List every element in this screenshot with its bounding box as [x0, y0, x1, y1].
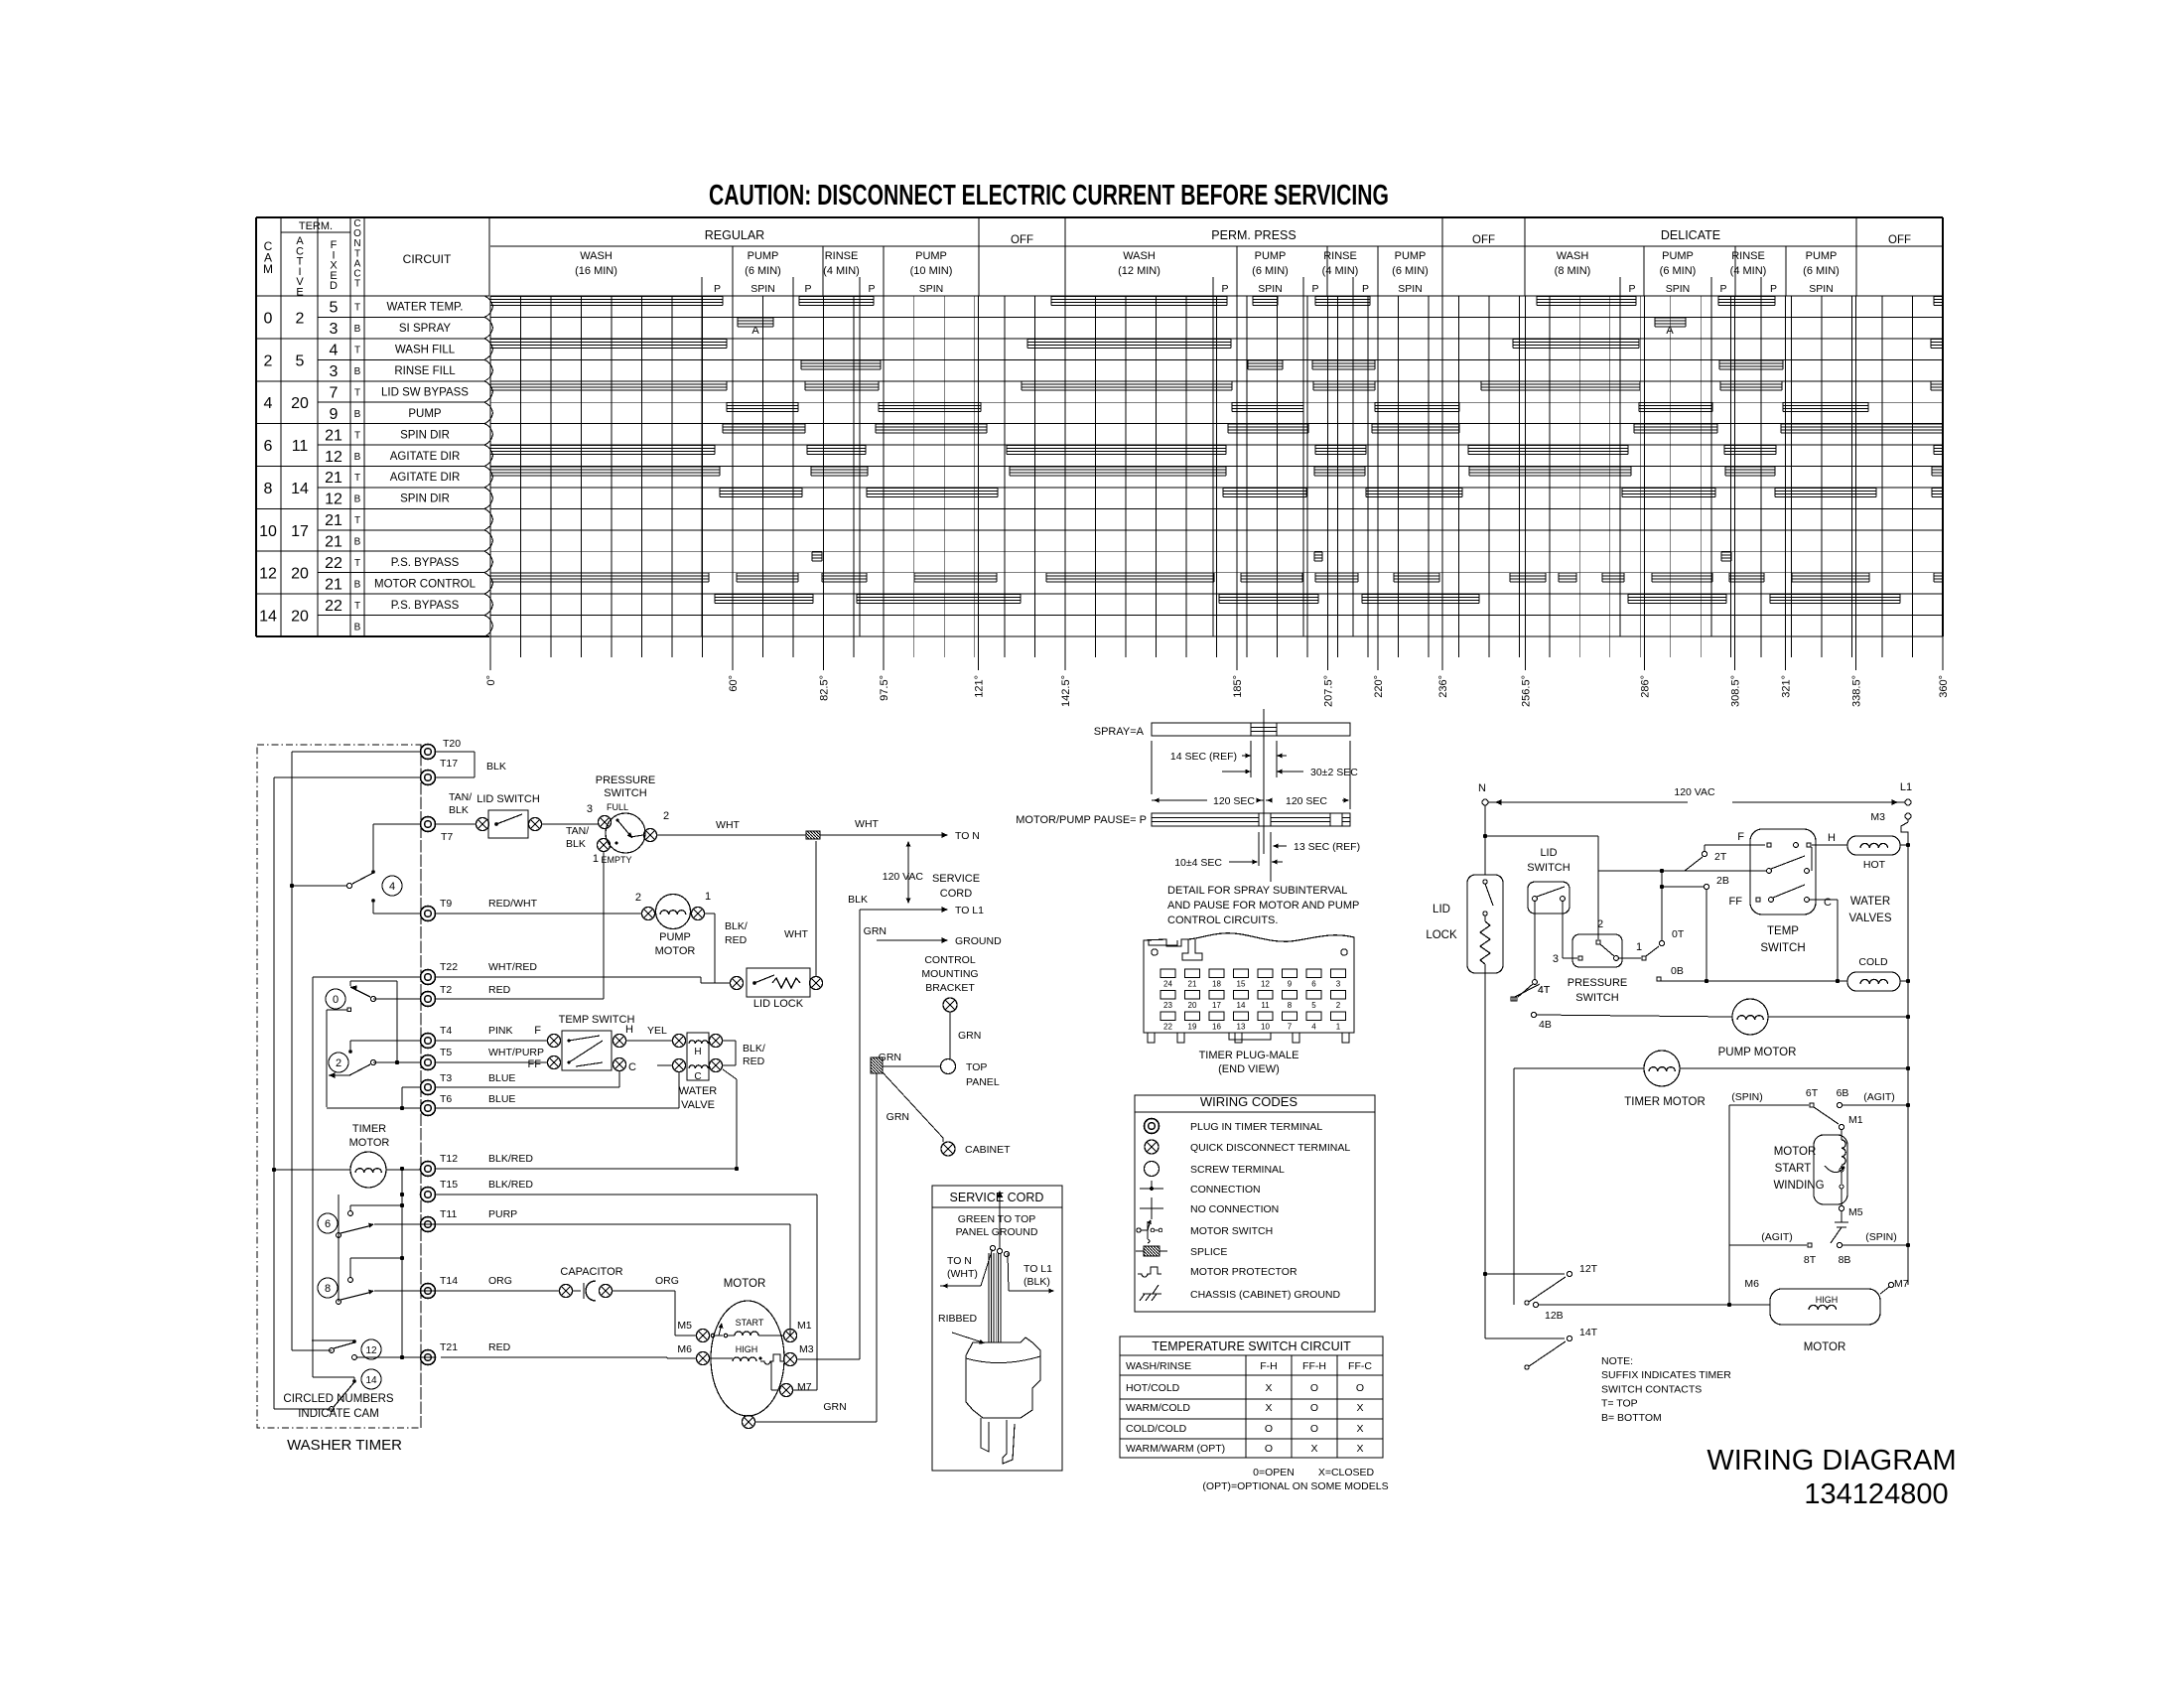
svg-text:TOP: TOP — [966, 1061, 987, 1073]
svg-text:RED: RED — [725, 934, 748, 946]
svg-text:WHT/RED: WHT/RED — [488, 961, 537, 973]
svg-text:8: 8 — [1288, 1001, 1293, 1010]
svg-text:X: X — [1356, 1443, 1363, 1455]
washer timer label — [287, 1437, 402, 1454]
svg-text:AND PAUSE FOR MOTOR AND PUMP: AND PAUSE FOR MOTOR AND PUMP — [1167, 900, 1359, 912]
svg-text:321°: 321° — [1781, 675, 1793, 698]
svg-text:21: 21 — [1188, 980, 1197, 989]
svg-text:B: B — [354, 324, 361, 335]
svg-text:(END VIEW): (END VIEW) — [1218, 1063, 1280, 1075]
cam 8 switch — [318, 1195, 435, 1304]
timing bar row 4 RINSE FILL — [801, 360, 1783, 369]
valve to T12 riser — [723, 1069, 737, 1169]
bus 405 vertical — [400, 1167, 404, 1359]
svg-text:SERVICE CORD: SERVICE CORD — [950, 1191, 1044, 1204]
svg-text:LID SWITCH: LID SWITCH — [477, 793, 540, 805]
svg-text:VALVE: VALVE — [681, 1099, 715, 1111]
svg-text:13 SEC (REF): 13 SEC (REF) — [1294, 841, 1360, 853]
timing bar row 14 MOTOR CONTROL — [490, 573, 1943, 582]
svg-text:M7: M7 — [797, 1381, 812, 1393]
svg-text:82.5°: 82.5° — [818, 675, 830, 701]
svg-text:GRN: GRN — [879, 1052, 901, 1063]
svg-text:ORG: ORG — [488, 1275, 512, 1287]
svg-text:GROUND: GROUND — [955, 935, 1002, 947]
svg-text:O: O — [1310, 1423, 1318, 1435]
svg-text:HOT/COLD: HOT/COLD — [1126, 1382, 1180, 1394]
lid switch (timer) — [435, 793, 599, 850]
svg-text:10: 10 — [259, 523, 277, 540]
svg-text:2B: 2B — [1716, 875, 1729, 887]
water valve (timer) — [657, 1033, 765, 1111]
svg-text:B: B — [354, 579, 361, 590]
svg-text:T: T — [354, 473, 360, 484]
washer timer dashed enclosure — [257, 745, 421, 1428]
circled numbers note — [283, 1393, 394, 1420]
timing bar row 7 SPIN DIR — [723, 424, 1943, 433]
wiring code: splice — [1136, 1246, 1227, 1258]
svg-text:SPIN: SPIN — [1258, 283, 1283, 295]
svg-text:4: 4 — [389, 881, 395, 893]
svg-text:NOTE:: NOTE: — [1601, 1355, 1633, 1367]
svg-text:T= TOP: T= TOP — [1601, 1398, 1638, 1410]
svg-text:B: B — [354, 494, 361, 505]
svg-text:(6 MIN): (6 MIN) — [745, 265, 781, 277]
svg-text:WATER: WATER — [1850, 896, 1890, 908]
svg-text:PRESSURE: PRESSURE — [596, 774, 656, 786]
svg-text:SPLICE: SPLICE — [1190, 1246, 1227, 1258]
T15 wire to M7 riser — [435, 1195, 817, 1390]
svg-text:WIRING CODES: WIRING CODES — [1200, 1094, 1298, 1109]
svg-text:WIRING DIAGRAM: WIRING DIAGRAM — [1706, 1445, 1956, 1477]
water valves label — [1848, 896, 1891, 924]
svg-text:BLK/: BLK/ — [725, 920, 748, 932]
svg-text:REGULAR: REGULAR — [705, 228, 764, 242]
wiring code: motor switch — [1137, 1219, 1273, 1243]
svg-text:12T: 12T — [1579, 1263, 1598, 1275]
svg-text:8: 8 — [264, 481, 273, 497]
svg-text:BLUE: BLUE — [488, 1072, 515, 1084]
timer motor (timer) — [274, 1123, 420, 1188]
svg-text:WASH: WASH — [1557, 250, 1589, 262]
svg-text:20: 20 — [291, 566, 309, 583]
svg-text:60°: 60° — [728, 675, 740, 692]
svg-text:RED/WHT: RED/WHT — [488, 898, 538, 910]
svg-text:TO N: TO N — [955, 830, 980, 842]
svg-text:HIGH: HIGH — [1816, 1295, 1839, 1305]
cam 14 switch — [313, 1340, 381, 1411]
svg-text:T6: T6 — [440, 1093, 452, 1105]
T22 bus down to cam12 — [312, 1224, 313, 1340]
svg-text:0T: 0T — [1672, 928, 1685, 940]
svg-text:4: 4 — [264, 395, 273, 412]
svg-text:MOTOR SWITCH: MOTOR SWITCH — [1190, 1225, 1273, 1237]
svg-text:TEMPERATURE SWITCH CIRCUIT: TEMPERATURE SWITCH CIRCUIT — [1152, 1339, 1351, 1353]
svg-text:12: 12 — [325, 492, 342, 508]
temp switch (right schematic) — [1729, 829, 1836, 954]
svg-text:RINSE: RINSE — [1323, 250, 1357, 262]
svg-text:NO CONNECTION: NO CONNECTION — [1190, 1203, 1279, 1215]
svg-text:BLK/RED: BLK/RED — [488, 1153, 533, 1165]
wiring code: chassis ground — [1140, 1285, 1341, 1301]
svg-text:MOTOR: MOTOR — [1804, 1341, 1846, 1353]
spin/agit 6T 6B row — [1729, 1087, 1908, 1305]
svg-text:360°: 360° — [1938, 675, 1950, 698]
svg-text:M6: M6 — [677, 1343, 692, 1355]
svg-text:10: 10 — [1261, 1023, 1270, 1032]
svg-text:SPRAY=A: SPRAY=A — [1094, 726, 1145, 738]
svg-text:P.S. BYPASS: P.S. BYPASS — [391, 557, 460, 569]
svg-text:P: P — [714, 283, 721, 295]
svg-text:T: T — [354, 430, 360, 441]
svg-text:RINSE FILL: RINSE FILL — [394, 365, 456, 377]
svg-text:FF-C: FF-C — [1348, 1360, 1372, 1372]
svg-text:7: 7 — [330, 385, 339, 402]
svg-text:4B: 4B — [1539, 1019, 1552, 1031]
circuit name flags — [364, 296, 493, 636]
svg-text:CONTROL CIRCUITS.: CONTROL CIRCUITS. — [1167, 914, 1278, 926]
svg-text:SPIN: SPIN — [1666, 283, 1691, 295]
svg-text:TEMP SWITCH: TEMP SWITCH — [559, 1014, 635, 1026]
node N — [1478, 782, 1488, 805]
svg-text:236°: 236° — [1437, 675, 1449, 698]
cam chart outer frame — [256, 217, 1943, 636]
agit/spin 8T 8B row — [1729, 1231, 1908, 1266]
motor start winding — [1773, 1114, 1862, 1243]
svg-text:WASH/RINSE: WASH/RINSE — [1126, 1360, 1191, 1372]
svg-text:AGITATE DIR: AGITATE DIR — [390, 451, 461, 463]
cam 4 switch — [292, 824, 421, 914]
pressure switch (timer) — [587, 774, 669, 865]
svg-text:120 VAC: 120 VAC — [1674, 786, 1715, 798]
svg-text:QUICK DISCONNECT TERMINAL: QUICK DISCONNECT TERMINAL — [1190, 1142, 1350, 1154]
timing bar row 3 WASH FILL — [490, 339, 1943, 348]
svg-text:2: 2 — [336, 1057, 341, 1069]
svg-text:LID LOCK: LID LOCK — [753, 998, 804, 1010]
svg-text:21: 21 — [325, 576, 342, 593]
svg-text:(10 MIN): (10 MIN) — [910, 265, 953, 277]
svg-text:TIMER MOTOR: TIMER MOTOR — [1624, 1096, 1706, 1108]
spray=A bar — [1094, 709, 1350, 854]
svg-text:RED: RED — [743, 1055, 765, 1067]
svg-text:1: 1 — [705, 891, 711, 903]
cam chart row cells — [256, 300, 364, 636]
svg-text:0=OPEN: 0=OPEN — [1253, 1467, 1295, 1478]
svg-text:FF: FF — [528, 1058, 542, 1070]
wiring code: no connection — [1140, 1197, 1279, 1219]
svg-text:13: 13 — [1237, 1023, 1246, 1032]
svg-text:4T: 4T — [1538, 984, 1551, 996]
svg-text:6B: 6B — [1837, 1087, 1849, 1099]
chart grid horizontals — [490, 296, 1943, 636]
0T 0B contacts — [1657, 871, 1847, 983]
svg-text:COLD: COLD — [1858, 956, 1888, 968]
svg-text:T7: T7 — [441, 831, 453, 843]
temp switch (timer) — [435, 1014, 672, 1087]
svg-text:EMPTY: EMPTY — [601, 855, 631, 865]
svg-text:P: P — [804, 283, 811, 295]
ground distribution — [871, 954, 1011, 1156]
timer plug-male outline — [1144, 933, 1354, 1075]
svg-text:SPIN: SPIN — [1809, 283, 1834, 295]
svg-text:BRACKET: BRACKET — [925, 982, 975, 994]
pump motor (timer) — [435, 891, 748, 983]
svg-text:CORD: CORD — [940, 888, 972, 900]
svg-text:ORG: ORG — [655, 1275, 679, 1287]
timing bar row 13 P.S. BYPASS — [812, 552, 1731, 561]
svg-text:12: 12 — [259, 566, 277, 583]
svg-text:WHT: WHT — [716, 819, 740, 831]
svg-text:16: 16 — [1212, 1023, 1221, 1032]
svg-text:4: 4 — [1311, 1023, 1316, 1032]
service cord plug drawing — [938, 1191, 1054, 1464]
svg-text:(6 MIN): (6 MIN) — [1803, 265, 1840, 277]
svg-text:2: 2 — [635, 892, 641, 904]
svg-text:PURP: PURP — [488, 1208, 517, 1220]
svg-text:GRN: GRN — [887, 1111, 909, 1123]
svg-text:(12 MIN): (12 MIN) — [1118, 265, 1160, 277]
svg-text:TAN/: TAN/ — [449, 791, 472, 803]
cam 12 switch — [312, 1339, 402, 1359]
svg-text:GRN: GRN — [864, 925, 887, 937]
svg-text:97.5°: 97.5° — [879, 675, 890, 701]
svg-text:PUMP: PUMP — [1806, 250, 1838, 262]
degree labels — [485, 675, 1950, 707]
svg-text:(8 MIN): (8 MIN) — [1555, 265, 1591, 277]
svg-text:HIGH: HIGH — [736, 1344, 758, 1354]
svg-text:SPIN DIR: SPIN DIR — [400, 493, 450, 505]
lid lock (timer) — [435, 841, 823, 1010]
svg-text:(6 MIN): (6 MIN) — [1252, 265, 1289, 277]
svg-text:T: T — [354, 558, 360, 569]
svg-text:C: C — [1824, 897, 1832, 909]
svg-text:B: B — [354, 452, 361, 463]
svg-text:WHT: WHT — [784, 928, 808, 940]
svg-text:PRESSURE: PRESSURE — [1568, 977, 1628, 989]
svg-text:X: X — [1356, 1402, 1363, 1414]
svg-text:B: B — [354, 366, 361, 377]
svg-text:12B: 12B — [1545, 1310, 1564, 1322]
svg-text:RINSE: RINSE — [825, 250, 859, 262]
svg-text:L1: L1 — [1900, 781, 1912, 793]
svg-text:8T: 8T — [1804, 1254, 1817, 1266]
svg-text:T: T — [354, 388, 360, 399]
svg-text:21: 21 — [325, 470, 342, 487]
wiring code: screw terminal — [1145, 1162, 1286, 1177]
svg-text:P: P — [1311, 283, 1318, 295]
svg-text:338.5°: 338.5° — [1851, 675, 1863, 707]
12B wire to HIGH winding — [1533, 1302, 1770, 1322]
svg-text:M7: M7 — [1894, 1278, 1909, 1290]
svg-text:CONTROL: CONTROL — [924, 954, 975, 966]
cam 6 switch — [318, 1205, 435, 1237]
svg-text:(AGIT): (AGIT) — [1863, 1091, 1895, 1103]
svg-text:WATER TEMP.: WATER TEMP. — [387, 302, 464, 314]
service cord box — [932, 1186, 1062, 1471]
grn wire to ground — [864, 925, 1002, 947]
svg-text:M3: M3 — [799, 1343, 814, 1355]
svg-text:T: T — [354, 279, 360, 290]
svg-text:P: P — [1719, 283, 1726, 295]
T14 ORG wire (already drawn), T11 PURP wire — [435, 1224, 790, 1336]
svg-text:T12: T12 — [440, 1153, 458, 1165]
svg-text:WASH: WASH — [1123, 250, 1156, 262]
svg-text:3: 3 — [1336, 980, 1341, 989]
svg-text:BLUE: BLUE — [488, 1093, 515, 1105]
svg-text:142.5°: 142.5° — [1060, 675, 1072, 707]
svg-text:12: 12 — [1261, 980, 1270, 989]
svg-text:E: E — [296, 287, 303, 299]
svg-text:SWITCH: SWITCH — [1527, 862, 1570, 874]
svg-text:BLK: BLK — [486, 761, 506, 773]
svg-text:GRN: GRN — [958, 1030, 981, 1042]
wht wire to splice and N — [656, 818, 980, 842]
timing bar row 6 PUMP — [727, 403, 1868, 412]
svg-text:185°: 185° — [1232, 675, 1244, 698]
timing bar row 1 WATER TEMP — [490, 297, 1943, 306]
svg-text:TIMER: TIMER — [352, 1123, 386, 1135]
svg-text:12: 12 — [325, 449, 342, 466]
svg-text:6: 6 — [325, 1218, 331, 1230]
12T contact — [1485, 1263, 1598, 1305]
svg-text:MOTOR: MOTOR — [655, 945, 696, 957]
svg-text:SPIN: SPIN — [751, 283, 775, 295]
svg-text:6: 6 — [1311, 980, 1316, 989]
svg-text:CONNECTION: CONNECTION — [1190, 1184, 1261, 1196]
svg-text:(WHT): (WHT) — [947, 1268, 978, 1280]
svg-text:20: 20 — [291, 609, 309, 626]
svg-text:PERM. PRESS: PERM. PRESS — [1211, 228, 1296, 242]
svg-text:5: 5 — [330, 300, 339, 317]
svg-text:T: T — [354, 346, 360, 356]
svg-text:CIRCLED NUMBERS: CIRCLED NUMBERS — [283, 1393, 394, 1405]
svg-text:24: 24 — [1163, 980, 1172, 989]
svg-text:INDICATE CAM: INDICATE CAM — [298, 1408, 379, 1420]
svg-text:LID: LID — [1433, 904, 1450, 915]
svg-text:T: T — [354, 601, 360, 612]
svg-text:SERVICE: SERVICE — [932, 873, 980, 885]
svg-text:11: 11 — [1261, 1001, 1270, 1010]
svg-text:22: 22 — [325, 598, 342, 615]
svg-text:14: 14 — [1237, 1001, 1246, 1010]
svg-text:MOTOR CONTROL: MOTOR CONTROL — [374, 578, 477, 590]
service cord labels — [883, 841, 980, 904]
svg-text:O: O — [1310, 1402, 1318, 1414]
svg-text:T22: T22 — [440, 961, 458, 973]
4T contact — [1513, 980, 1551, 1001]
node L1 — [1900, 781, 1912, 805]
svg-text:COLD/COLD: COLD/COLD — [1126, 1423, 1187, 1435]
svg-text:(SPIN): (SPIN) — [1731, 1091, 1763, 1103]
svg-text:WASHER TIMER: WASHER TIMER — [287, 1437, 402, 1454]
svg-text:6: 6 — [264, 438, 273, 455]
svg-text:5: 5 — [1311, 1001, 1316, 1010]
svg-text:WARM/WARM (OPT): WARM/WARM (OPT) — [1126, 1443, 1225, 1455]
svg-text:PANEL: PANEL — [966, 1076, 1000, 1088]
svg-text:BLK/: BLK/ — [743, 1043, 765, 1055]
svg-text:T20: T20 — [443, 738, 461, 750]
chart section headers — [490, 217, 1943, 296]
svg-text:F: F — [534, 1025, 541, 1037]
svg-text:308.5°: 308.5° — [1730, 675, 1742, 707]
svg-text:P: P — [1770, 283, 1777, 295]
svg-text:P.S. BYPASS: P.S. BYPASS — [391, 600, 460, 612]
svg-text:14T: 14T — [1579, 1327, 1598, 1338]
svg-text:MOTOR: MOTOR — [724, 1278, 766, 1290]
svg-text:8B: 8B — [1839, 1254, 1851, 1266]
svg-text:8: 8 — [325, 1283, 331, 1295]
14 sec ref dimension — [1152, 741, 1251, 794]
svg-text:RED: RED — [488, 1341, 511, 1353]
svg-text:M6: M6 — [1744, 1278, 1759, 1290]
svg-text:D: D — [330, 280, 338, 292]
svg-text:PUMP MOTOR: PUMP MOTOR — [1718, 1047, 1797, 1058]
svg-text:F: F — [1737, 831, 1744, 843]
svg-text:3: 3 — [1553, 953, 1559, 965]
svg-text:SPIN: SPIN — [919, 283, 944, 295]
svg-text:YEL: YEL — [647, 1025, 667, 1037]
svg-text:PUMP: PUMP — [915, 250, 947, 262]
svg-text:BLK: BLK — [566, 838, 586, 850]
svg-text:M3: M3 — [1870, 811, 1885, 823]
svg-text:B: B — [354, 537, 361, 548]
svg-text:N: N — [1478, 782, 1486, 794]
svg-text:T: T — [354, 515, 360, 526]
svg-text:T3: T3 — [440, 1072, 452, 1084]
T12 wire — [435, 1167, 739, 1171]
svg-text:22: 22 — [325, 555, 342, 572]
svg-text:20: 20 — [291, 395, 309, 412]
svg-text:LID SW BYPASS: LID SW BYPASS — [381, 387, 469, 399]
svg-text:O: O — [1265, 1423, 1273, 1435]
svg-text:0: 0 — [264, 310, 273, 327]
timing bar row 15 P.S. BYPASS cam14 — [715, 595, 1900, 604]
bus from T17 (x276) — [272, 777, 421, 1409]
svg-text:H: H — [1828, 832, 1836, 844]
svg-text:134124800: 134124800 — [1804, 1478, 1948, 1510]
timer motor (right) — [1514, 1051, 1908, 1305]
svg-text:9: 9 — [330, 406, 339, 423]
svg-text:6T: 6T — [1806, 1087, 1819, 1099]
T3/T6 blue bus — [327, 1072, 679, 1110]
svg-text:M: M — [263, 262, 273, 276]
svg-text:120 VAC: 120 VAC — [883, 871, 924, 883]
capacitor — [435, 1266, 679, 1301]
svg-text:GREEN TO TOP: GREEN TO TOP — [958, 1213, 1036, 1225]
timing bar row 9 AGITATE DIR cam8 — [490, 467, 1943, 476]
timing bar row 10 SPIN DIR cam8 — [720, 488, 1943, 496]
svg-text:TO N: TO N — [947, 1255, 972, 1267]
spray A marks — [751, 325, 1674, 337]
svg-text:21: 21 — [325, 534, 342, 551]
svg-text:14: 14 — [291, 481, 309, 497]
svg-text:WHT: WHT — [855, 818, 879, 830]
svg-text:14: 14 — [259, 609, 277, 626]
svg-text:T11: T11 — [440, 1208, 457, 1220]
svg-text:TO L1: TO L1 — [1024, 1263, 1052, 1275]
svg-text:HOT: HOT — [1863, 859, 1886, 871]
svg-text:VALVES: VALVES — [1848, 913, 1891, 924]
svg-text:M1: M1 — [1848, 1114, 1863, 1126]
120 sec dimensions — [1152, 741, 1350, 809]
svg-text:FULL: FULL — [607, 802, 628, 812]
2T 2B contacts — [1598, 845, 1767, 981]
svg-text:T17: T17 — [440, 758, 458, 770]
svg-text:TERM.: TERM. — [299, 220, 333, 232]
svg-text:2T: 2T — [1714, 851, 1727, 863]
svg-text:B: B — [354, 622, 361, 633]
svg-text:0B: 0B — [1671, 965, 1684, 977]
svg-text:(4 MIN): (4 MIN) — [1322, 265, 1359, 277]
